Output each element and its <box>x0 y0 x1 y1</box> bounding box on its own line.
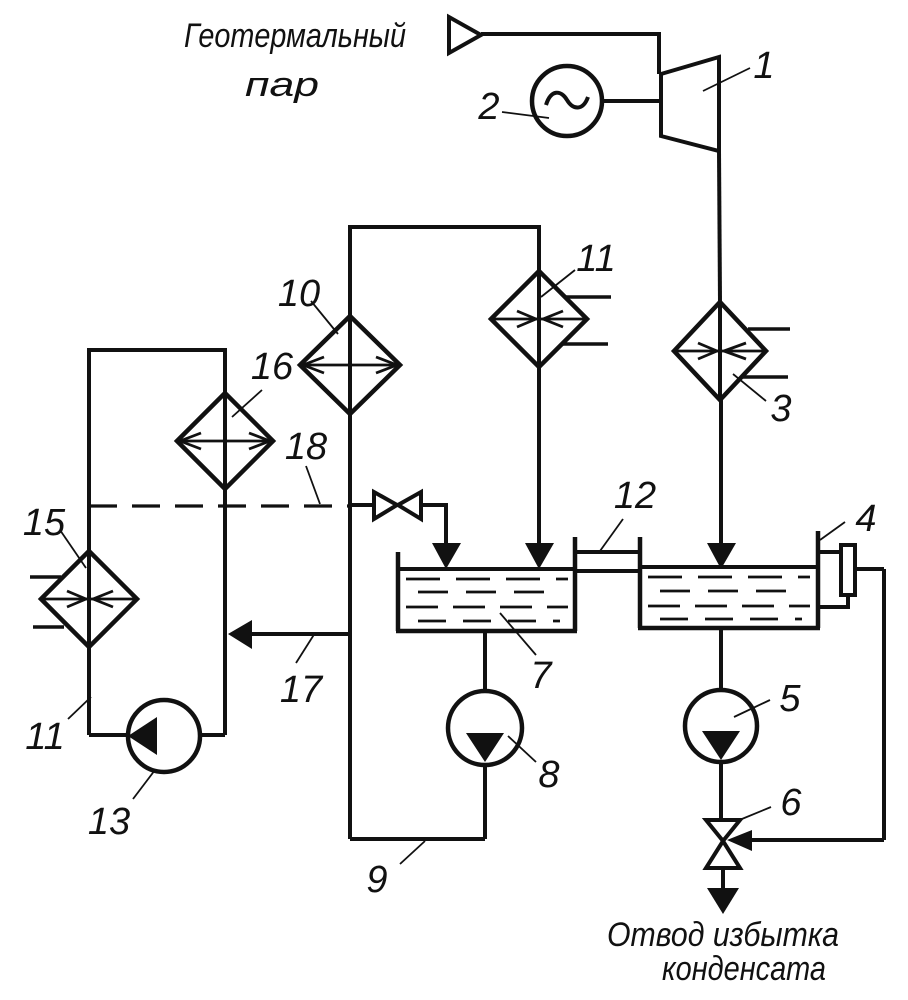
label 13 <box>88 801 130 843</box>
heat exchanger 3 external stubs <box>748 327 790 331</box>
wire inlet to turbine <box>481 34 659 74</box>
turbine 1 <box>661 57 719 151</box>
label 12 <box>614 475 656 517</box>
heat exchanger 15 external stubs <box>30 575 61 579</box>
svg-text:5: 5 <box>779 678 801 720</box>
wire HX11 to tank 7 <box>537 271 541 545</box>
tank 7 <box>396 552 401 631</box>
arrow into tank 7 (right) <box>525 543 554 569</box>
generator 2 <box>532 66 602 136</box>
pump 13 <box>89 733 130 737</box>
svg-text:7: 7 <box>530 655 553 697</box>
steam inlet arrow symbol <box>449 17 481 53</box>
tank 4 <box>638 626 820 631</box>
svg-text:Отвод избытка: Отвод избытка <box>607 916 839 954</box>
heat exchanger 16 <box>177 393 273 489</box>
wire turbine to heat exchanger 3 <box>719 151 720 302</box>
heat exchanger 11 external stubs <box>566 295 611 299</box>
label 10 <box>278 273 320 315</box>
valve on line 18 <box>350 503 374 507</box>
pump 5 <box>719 628 723 691</box>
top header wire <box>350 227 539 316</box>
svg-text:15: 15 <box>23 502 66 544</box>
label 9 <box>366 859 387 901</box>
heat exchanger 11 <box>491 271 587 367</box>
text Геотермальный пар <box>184 17 406 104</box>
text Отвод избытка конденсата <box>607 916 839 988</box>
svg-text:12: 12 <box>614 475 656 517</box>
valve 6 <box>706 820 740 841</box>
label 3 <box>770 388 791 430</box>
wire through heat exchanger 10 down (line 9 riser) <box>348 316 352 839</box>
svg-text:конденсата: конденсата <box>662 950 826 988</box>
svg-text:8: 8 <box>538 754 559 796</box>
heat exchanger 3 <box>674 302 766 400</box>
label 5 <box>779 678 801 720</box>
dashed line 18 <box>89 504 348 507</box>
heat exchanger 15 <box>41 551 137 647</box>
arrow into tank 7 (left) <box>432 543 461 569</box>
line 17 with arrow <box>252 632 350 636</box>
svg-text:3: 3 <box>770 388 791 430</box>
label 16 <box>251 346 294 388</box>
svg-text:6: 6 <box>780 782 802 824</box>
label 15 <box>23 502 66 544</box>
svg-text:13: 13 <box>88 801 130 843</box>
label 18 <box>285 426 327 468</box>
label 7 <box>530 655 553 697</box>
heat exchanger 10 <box>300 316 400 414</box>
wire HX3 to tank 4 <box>719 400 723 545</box>
line 9 bottom wire <box>350 837 485 841</box>
svg-text:9: 9 <box>366 859 387 901</box>
connector 12 <box>638 537 643 628</box>
label 1 <box>753 45 774 87</box>
svg-text:2: 2 <box>477 86 499 128</box>
shaft wire generator to turbine <box>602 99 661 103</box>
pump 8 <box>483 631 487 691</box>
svg-text:Геотермальный: Геотермальный <box>184 17 406 55</box>
svg-text:1: 1 <box>753 45 774 87</box>
label 11 top <box>576 238 615 280</box>
level gauge on tank 4 <box>818 550 841 554</box>
left loop wires <box>89 350 225 735</box>
wire valve to tank 7 <box>421 505 446 545</box>
label 17 <box>280 669 324 711</box>
right return wire <box>882 569 886 840</box>
svg-text:17: 17 <box>280 669 324 711</box>
label 8 <box>538 754 559 796</box>
arrow into valve 6 from right <box>752 838 884 842</box>
svg-text:16: 16 <box>251 346 294 388</box>
label 6 <box>780 782 802 824</box>
svg-text:11: 11 <box>576 238 615 280</box>
condensate outlet arrow <box>721 868 725 890</box>
arrow into tank 4 <box>707 543 736 569</box>
svg-text:11: 11 <box>25 716 64 758</box>
label 11 bottom <box>25 716 64 758</box>
label 4 <box>855 498 876 540</box>
svg-text:18: 18 <box>285 426 327 468</box>
label 2 <box>477 86 499 128</box>
svg-text:10: 10 <box>278 273 320 315</box>
svg-text:пар: пар <box>245 66 319 104</box>
svg-text:4: 4 <box>855 498 876 540</box>
